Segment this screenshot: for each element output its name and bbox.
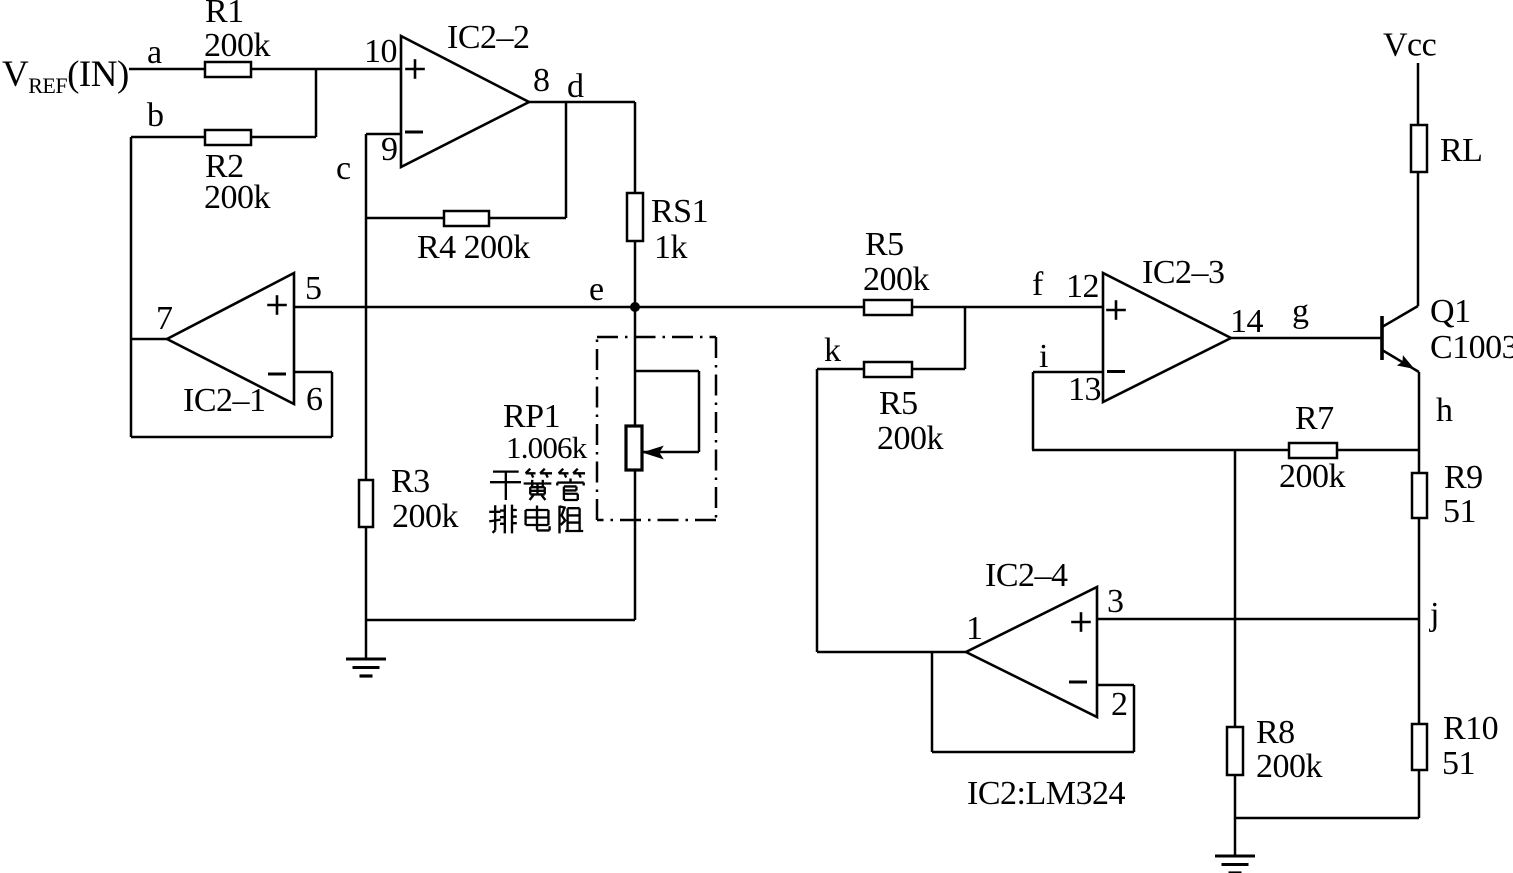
svg-text:200k: 200k (204, 27, 271, 64)
wire (294, 371, 332, 374)
wire (131, 136, 316, 139)
svg-text:g: g (1292, 293, 1309, 330)
svg-text:k: k (824, 332, 841, 369)
svg-text:h: h (1436, 392, 1453, 429)
svg-text:IC2–2: IC2–2 (447, 19, 530, 56)
wire (366, 217, 566, 220)
wire (817, 368, 965, 371)
wire (294, 306, 635, 309)
wire (1032, 449, 1419, 452)
resistor R8 (1227, 714, 1323, 785)
op-amp IC2-4 (966, 557, 1097, 717)
svg-text:200k: 200k (1279, 458, 1346, 495)
svg-text:IC2:LM324: IC2:LM324 (967, 775, 1125, 812)
svg-text:14: 14 (1230, 303, 1264, 340)
svg-text:12: 12 (1066, 268, 1099, 305)
svg-text:f: f (1032, 266, 1044, 303)
wire (964, 307, 967, 369)
resistor R9 (1412, 459, 1483, 530)
wire (931, 652, 934, 752)
wire (565, 102, 568, 218)
resistor RL (1411, 125, 1482, 172)
svg-text:d: d (567, 68, 584, 105)
ground (1215, 818, 1255, 873)
svg-text:7: 7 (156, 300, 173, 337)
svg-text:1: 1 (966, 610, 983, 647)
wire (1097, 618, 1419, 621)
resistor RS1 (627, 193, 708, 266)
svg-text:R3: R3 (391, 463, 430, 500)
potentiometer RP1 (503, 371, 699, 470)
svg-text:R7: R7 (1295, 400, 1334, 437)
svg-text:a: a (147, 34, 162, 71)
resistor R5 (upper) (863, 226, 930, 315)
svg-text:RL: RL (1440, 132, 1482, 169)
svg-text:8: 8 (533, 62, 550, 99)
wire (529, 101, 635, 104)
wire (932, 751, 1134, 754)
label 排电阻 (resistor array) (489, 505, 583, 534)
wire (1417, 63, 1420, 306)
op-amp IC2-2 (401, 19, 530, 167)
wire (1235, 817, 1419, 820)
ground (346, 620, 386, 676)
svg-text:2: 2 (1111, 686, 1128, 723)
wire (1032, 372, 1035, 450)
resistor R10 (1412, 710, 1498, 782)
wire (1097, 684, 1134, 687)
svg-text:1.006k: 1.006k (506, 430, 588, 465)
op-amp IC2-3 (1103, 254, 1231, 402)
svg-text:51: 51 (1443, 493, 1476, 530)
node e (589, 271, 640, 312)
svg-text:Q1: Q1 (1430, 293, 1471, 330)
svg-text:200k: 200k (863, 261, 930, 298)
resistor R2 (204, 130, 271, 216)
wire (131, 338, 167, 341)
resistor R7 (1279, 400, 1346, 495)
svg-text:R1: R1 (205, 0, 244, 30)
resistor R3 (359, 463, 459, 535)
svg-text:e: e (589, 271, 604, 308)
wire (1033, 371, 1103, 374)
svg-text:RS1: RS1 (651, 193, 708, 230)
svg-text:10: 10 (364, 33, 397, 70)
svg-text:200k: 200k (877, 420, 944, 457)
svg-text:R5: R5 (879, 385, 918, 422)
wire (331, 372, 334, 437)
wire (1231, 337, 1382, 340)
wire (635, 306, 1103, 309)
wire (129, 68, 401, 71)
svg-text:Vcc: Vcc (1383, 27, 1437, 64)
wire (131, 436, 332, 439)
svg-text:13: 13 (1068, 371, 1101, 408)
resistor R4 (417, 211, 530, 266)
svg-text:200k: 200k (1256, 748, 1323, 785)
wire (634, 102, 637, 307)
svg-text:b: b (147, 97, 164, 134)
wire (366, 133, 401, 136)
transistor Q1 C1003 (1382, 293, 1513, 372)
svg-text:R8: R8 (1256, 714, 1295, 751)
svg-text:c: c (336, 150, 351, 187)
svg-text:R9: R9 (1444, 459, 1483, 496)
svg-text:C1003: C1003 (1430, 329, 1513, 366)
svg-text:IC2–1: IC2–1 (183, 382, 266, 419)
svg-text:IC2–3: IC2–3 (1142, 254, 1225, 291)
wire (315, 69, 318, 137)
svg-text:1k: 1k (654, 229, 688, 266)
svg-text:R5: R5 (865, 226, 904, 263)
svg-text:R10: R10 (1443, 710, 1498, 747)
svg-text:R4 200k: R4 200k (417, 229, 530, 266)
wire (130, 137, 133, 437)
wire (817, 651, 966, 654)
svg-text:IC2–4: IC2–4 (985, 557, 1068, 594)
svg-text:200k: 200k (392, 498, 459, 535)
svg-text:200k: 200k (204, 179, 271, 216)
svg-text:9: 9 (381, 131, 398, 168)
resistor R5 (lower) (864, 362, 944, 457)
resistor R1 (204, 0, 271, 77)
wire (634, 307, 637, 620)
svg-text:j: j (1429, 596, 1439, 633)
svg-text:6: 6 (306, 381, 323, 418)
wire (816, 369, 819, 652)
wire (1418, 372, 1421, 818)
svg-text:51: 51 (1442, 745, 1475, 782)
svg-text:i: i (1039, 338, 1048, 375)
wire (366, 619, 635, 622)
enclosure dash-dot box (597, 337, 716, 520)
op-amp U IC2-1 (167, 273, 294, 419)
svg-text:5: 5 (305, 270, 322, 307)
wire (1234, 450, 1237, 818)
svg-text:3: 3 (1107, 583, 1124, 620)
wire (365, 134, 368, 620)
wire (1133, 685, 1136, 752)
label 干簧管 (reed-switch) (490, 469, 585, 500)
